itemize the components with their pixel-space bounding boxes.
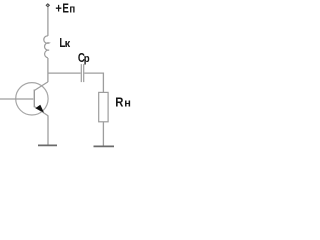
svg-text:Е: Е (62, 2, 69, 16)
transistor base bar (33, 90, 35, 108)
emitter arrow (35, 105, 44, 113)
inductor Lk (44, 36, 49, 58)
collector lead (35, 82, 48, 90)
svg-text:п: п (69, 4, 75, 16)
svg-text:R: R (115, 95, 123, 110)
terminal +Ep (46, 4, 49, 7)
node wire to capacitor (48, 72, 81, 74)
label Cр (78, 52, 85, 66)
wire capacitor to resistor (84, 73, 103, 92)
ground right (94, 145, 115, 147)
capacitor Cp plates (81, 64, 83, 82)
svg-text:к: к (65, 38, 71, 50)
svg-text:р: р (84, 54, 90, 66)
transistor VT circle (16, 83, 48, 115)
svg-text:н: н (124, 98, 131, 110)
wire emitter to ground (47, 116, 49, 145)
wire resistor to ground (102, 122, 104, 146)
wire inductor to collector bend (47, 58, 49, 82)
label Rн (115, 95, 123, 110)
label Lк (59, 37, 65, 51)
wire terminal to inductor (47, 7, 49, 36)
label +Еп (55, 0, 61, 15)
base wire (0, 98, 33, 100)
svg-text:+: + (55, 0, 61, 15)
resistor Rн box (99, 92, 108, 121)
ground left (38, 144, 57, 146)
emitter lead (35, 107, 48, 116)
